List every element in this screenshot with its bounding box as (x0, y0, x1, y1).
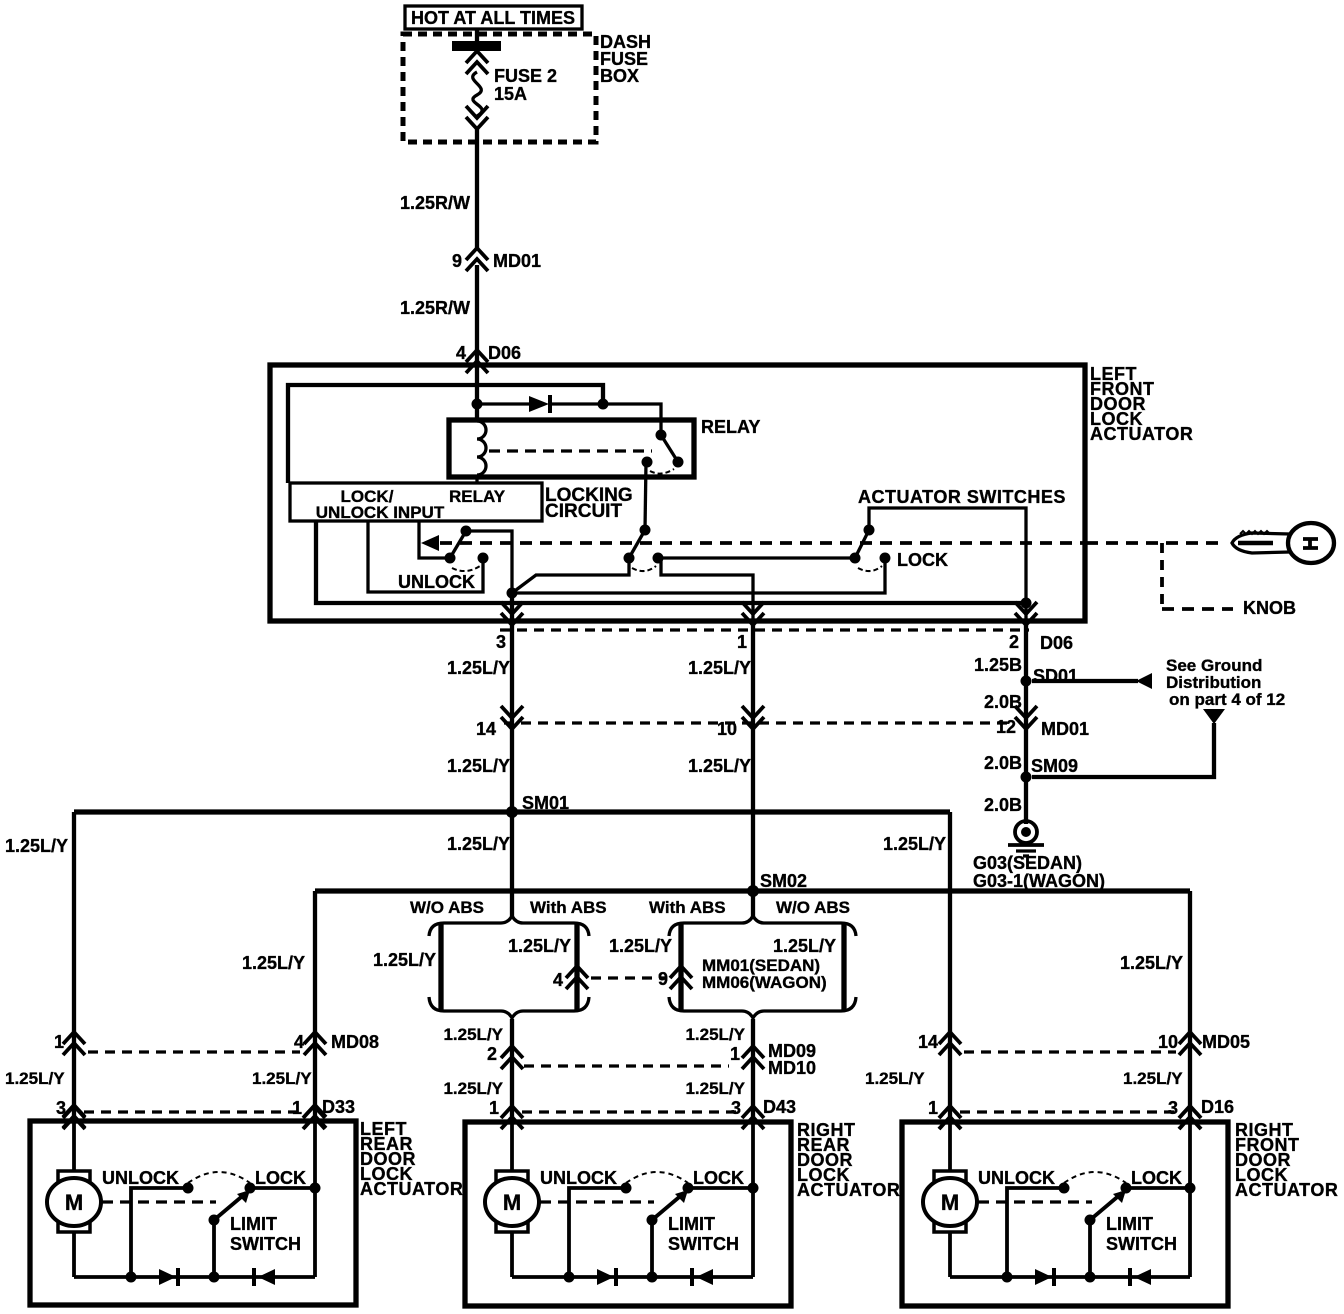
wire: loop from lock/unlock input box up and over to relay switch (288, 385, 603, 483)
wire: D06-3 to SM01, 1.25L/Y (510, 625, 514, 812)
wire: input box pin to unlock contact (368, 521, 483, 592)
wire: pin B vertical (313, 1121, 317, 1277)
svg-text:G03-1(WAGON): G03-1(WAGON) (973, 871, 1105, 891)
wire: bottom rail (74, 1275, 315, 1279)
svg-text:1.25L/Y: 1.25L/Y (685, 1079, 745, 1098)
component box: RIGHT FRONT DOOR LOCK ACTUATOR (902, 1122, 1228, 1306)
key H mark (1303, 539, 1318, 548)
node: HOT AT ALL TIMES power label box (405, 6, 582, 29)
svg-text:4: 4 (456, 343, 466, 363)
svg-text:D16: D16 (1201, 1097, 1234, 1117)
limit switch travel arc (dashed) (1064, 1172, 1126, 1183)
wire: left group to D43 pin 1, 1.25L/Y (510, 1019, 514, 1122)
limit switch pivot (RIGHT FRONT DOOR LOCK ACTUATOR) (1085, 1215, 1096, 1226)
svg-text:RELAY: RELAY (449, 487, 506, 506)
node: splice SM09 (1021, 772, 1032, 783)
diode D-b (LEFT REAR DOOR LOCK ACTUATOR) (252, 1268, 256, 1286)
wire: lock contact to pin 3 junction (512, 558, 885, 593)
svg-text:1.25L/Y: 1.25L/Y (883, 834, 946, 854)
wire: hot bus stub into fuse box (475, 29, 479, 42)
mechanical linkage arrow (421, 535, 439, 551)
switch: UNLOCK (actuator) pivot (445, 553, 456, 564)
svg-text:2.0B: 2.0B (984, 753, 1022, 773)
svg-text:1.25L/Y: 1.25L/Y (609, 936, 672, 956)
node: splice SM01 (506, 806, 518, 818)
middle switch contact (653, 553, 664, 564)
svg-text:1: 1 (54, 1032, 64, 1052)
diode D-b (RIGHT FRONT DOOR LOCK ACTUATOR) (1128, 1268, 1132, 1286)
svg-text:UNLOCK: UNLOCK (398, 572, 475, 592)
connector chevrons: fuse bottom (466, 106, 488, 129)
motor mechanical link (dashed) (978, 1200, 1092, 1203)
wire: motor to bottom rail (72, 1232, 76, 1277)
component box: LOCK/UNLOCK INPUT (290, 483, 542, 521)
relay RELAY box (449, 420, 694, 477)
limit switch travel arc (dashed) (626, 1172, 688, 1183)
motor mechanical link (dashed) (102, 1200, 216, 1203)
svg-text:12: 12 (996, 717, 1016, 737)
svg-text:14: 14 (476, 719, 496, 739)
switch: middle actuator switch pivot (624, 553, 635, 564)
diode D-b (RIGHT REAR DOOR LOCK ACTUATOR) (690, 1268, 694, 1286)
svg-text:10: 10 (1158, 1032, 1178, 1052)
svg-text:D06: D06 (1040, 633, 1073, 653)
limit switch pivot (RIGHT REAR DOOR LOCK ACTUATOR) (647, 1215, 658, 1226)
motor mechanical link (dashed) (540, 1200, 654, 1203)
relay mechanical link (dashed) (489, 449, 652, 452)
svg-text:ACTUATOR: ACTUATOR (1090, 424, 1193, 444)
svg-text:1.25B: 1.25B (974, 655, 1022, 675)
svg-text:M: M (941, 1190, 959, 1215)
svg-text:ACTUATOR SWITCHES: ACTUATOR SWITCHES (858, 487, 1066, 507)
limit switch arm (214, 1193, 246, 1220)
svg-text:W/O ABS: W/O ABS (410, 898, 484, 917)
wire: middle switch arm to relay contact (645, 462, 646, 530)
svg-text:1: 1 (730, 1044, 740, 1064)
svg-text:3: 3 (496, 632, 506, 652)
wire: relay coil bottom to lock/unlock input box (475, 475, 478, 484)
relay switch contact (642, 457, 653, 468)
component box: RIGHT REAR DOOR LOCK ACTUATOR (465, 1122, 791, 1306)
node: rail junction 2 (1085, 1272, 1096, 1283)
wire: SD01 to ground distribution (arrow) (1032, 679, 1138, 683)
wire: diode junction to relay switch common (603, 404, 661, 435)
connector MD01 pin 9 (466, 248, 488, 271)
wire: contact stub down to pin 1 (661, 558, 753, 621)
svg-text:1.25L/Y: 1.25L/Y (688, 756, 751, 776)
wire: SM09 to ground distribution (1032, 723, 1214, 777)
middle switch arm (629, 530, 645, 558)
svg-text:LOCK: LOCK (255, 1168, 306, 1188)
motor M (RIGHT FRONT DOOR LOCK ACTUATOR) (934, 1171, 966, 1183)
svg-text:W/O ABS: W/O ABS (776, 898, 850, 917)
diode D-a (RIGHT FRONT DOOR LOCK ACTUATOR) (1035, 1269, 1052, 1285)
wire: unlock contact to rail (131, 1188, 188, 1277)
node: splice SM02 (747, 885, 759, 897)
node: rail junction 1 (564, 1272, 575, 1283)
svg-text:SM09: SM09 (1031, 756, 1078, 776)
limit switch pivot (LEFT REAR DOOR LOCK ACTUATOR) (209, 1215, 220, 1226)
mechanical linkage dashed line to key (440, 541, 1083, 545)
svg-text:ACTUATOR: ACTUATOR (797, 1180, 900, 1200)
switch contact: UNLOCK (LEFT REAR DOOR LOCK ACTUATOR) (183, 1183, 194, 1194)
svg-text:1.25L/Y: 1.25L/Y (252, 1069, 312, 1088)
wire: pin 4 into relay coil (475, 365, 479, 421)
svg-text:1.25L/Y: 1.25L/Y (443, 1079, 503, 1098)
svg-text:2.0B: 2.0B (984, 692, 1022, 712)
svg-text:MD08: MD08 (331, 1032, 379, 1052)
svg-text:2: 2 (1009, 632, 1019, 652)
svg-text:1.25L/Y: 1.25L/Y (447, 834, 510, 854)
motor M (RIGHT REAR DOOR LOCK ACTUATOR) (496, 1171, 528, 1183)
diode D-a (LEFT REAR DOOR LOCK ACTUATOR) (159, 1269, 176, 1285)
svg-text:1.25L/Y: 1.25L/Y (865, 1069, 925, 1088)
wire: unlock contact to rail (569, 1188, 626, 1277)
svg-text:1.25L/Y: 1.25L/Y (685, 1025, 745, 1044)
wire: limit switch to rail (650, 1220, 654, 1277)
node: fuse bus bar (452, 41, 501, 51)
svg-text:LIMIT: LIMIT (668, 1214, 715, 1234)
svg-text:D43: D43 (763, 1097, 796, 1117)
wire: SM02 right branch down, 1.25L/Y (1188, 891, 1192, 1122)
svg-text:UNLOCK INPUT: UNLOCK INPUT (316, 503, 445, 522)
node: junction at coil top / diode anode (472, 399, 483, 410)
connector MD01 pin 12 (1015, 706, 1037, 729)
svg-text:RELAY: RELAY (701, 417, 760, 437)
svg-text:2: 2 (487, 1044, 497, 1064)
svg-text:M: M (503, 1190, 521, 1215)
connector D16 pins 1,3 (939, 1106, 961, 1129)
svg-text:LOCK: LOCK (693, 1168, 744, 1188)
component box: DASH FUSE BOX (dashed) (403, 34, 596, 142)
svg-text:BOX: BOX (600, 66, 639, 86)
connector MD05 pins 14,10 (939, 1032, 961, 1055)
svg-text:4: 4 (553, 970, 563, 990)
wire: limit switch to rail (212, 1220, 216, 1277)
diode D-a (RIGHT REAR DOOR LOCK ACTUATOR) (597, 1269, 614, 1285)
ground G03 (1015, 821, 1037, 843)
connector MD09 MD10 dashed line (524, 1064, 729, 1067)
node: splice SD01 (1021, 676, 1032, 687)
wire: pin B vertical (751, 1122, 755, 1277)
node: rail junction 2 (647, 1272, 658, 1283)
node: rail junction 1 (126, 1272, 137, 1283)
switch: LOCK (actuator) pivot (850, 553, 861, 564)
key symbol (1288, 523, 1334, 563)
svg-text:UNLOCK: UNLOCK (540, 1168, 617, 1188)
unlock switch arm (450, 531, 466, 558)
svg-text:1.25L/Y: 1.25L/Y (1123, 1069, 1183, 1088)
connector pin 9 (MM01/MM06) (670, 966, 692, 989)
svg-text:1.25L/Y: 1.25L/Y (773, 936, 836, 956)
wire: junction to middle switch pivot (512, 558, 629, 593)
svg-text:MD01: MD01 (493, 251, 541, 271)
svg-text:1.25L/Y: 1.25L/Y (373, 950, 436, 970)
switch contact: LOCK (RIGHT REAR DOOR LOCK ACTUATOR) (683, 1183, 694, 1194)
connector D06 pin 4 (466, 350, 488, 373)
connector MD01 pin 14 (501, 706, 523, 729)
switch contact: LOCK (LEFT REAR DOOR LOCK ACTUATOR) (245, 1183, 256, 1194)
wire: unlock contact to rail (1007, 1188, 1064, 1277)
wire: D06-2 ground wire 1.25B (1024, 625, 1028, 824)
wire: input box pin to D06 pin 2 line (316, 521, 1026, 603)
lock switch arm (855, 530, 869, 558)
svg-text:1.25L/Y: 1.25L/Y (5, 836, 68, 856)
switch contact: UNLOCK (RIGHT FRONT DOOR LOCK ACTUATOR) (1059, 1183, 1070, 1194)
svg-text:1.25L/Y: 1.25L/Y (447, 658, 510, 678)
connector D06 pins 3,1,2 (501, 602, 523, 625)
wire: pin to motor (510, 1122, 514, 1173)
wire: lock arm up over to pin 2 (869, 508, 1026, 621)
connector chevrons: fuse top (466, 51, 488, 74)
relay coil (477, 421, 486, 475)
svg-text:MD01: MD01 (1041, 719, 1089, 739)
svg-text:1.25L/Y: 1.25L/Y (688, 658, 751, 678)
wire: pin to motor (72, 1121, 76, 1173)
svg-text:1: 1 (292, 1098, 302, 1118)
svg-text:1.25L/Y: 1.25L/Y (443, 1025, 503, 1044)
svg-text:With ABS: With ABS (649, 898, 726, 917)
svg-text:9: 9 (452, 251, 462, 271)
svg-text:1.25L/Y: 1.25L/Y (5, 1069, 65, 1088)
wire: limit switch to rail (1088, 1220, 1092, 1277)
connector MM01(SEDAN) MM06(WAGON) dashed link (591, 976, 667, 979)
wire: unlock arm to pin 3 junction (466, 531, 512, 593)
svg-text:LOCK: LOCK (1131, 1168, 1182, 1188)
svg-text:MD05: MD05 (1202, 1032, 1250, 1052)
node: rail junction 1 (1002, 1272, 1013, 1283)
connector pins into LEFT REAR DOOR LOCK ACTUATOR (63, 1105, 85, 1128)
wire: fuse to connector MD01, 1.25R/W (475, 129, 479, 250)
branch split: With ABS / W/O ABS (right group) (669, 916, 856, 936)
svg-text:1.25L/Y: 1.25L/Y (508, 936, 571, 956)
svg-text:With ABS: With ABS (530, 898, 607, 917)
limit switch arm (1090, 1193, 1122, 1220)
svg-text:SM02: SM02 (760, 871, 807, 891)
wire: lock contact to pin (250, 1186, 315, 1190)
svg-text:KNOB: KNOB (1243, 598, 1296, 618)
unlock switch contact (478, 553, 489, 564)
node: rail junction 2 (209, 1272, 220, 1283)
svg-text:1.25L/Y: 1.25L/Y (242, 953, 305, 973)
connector MD01 pin 10 (742, 706, 764, 729)
wire: D06-1 to SM02, 1.25L/Y (751, 625, 755, 889)
connector MD09/MD10 pin 2 (501, 1046, 523, 1069)
wire: right group to D43 pin 3, 1.25L/Y (751, 1019, 755, 1122)
node: pin 3 junction (507, 588, 518, 599)
svg-text:SWITCH: SWITCH (1106, 1234, 1177, 1254)
svg-text:SWITCH: SWITCH (230, 1234, 301, 1254)
component box: LEFT FRONT DOOR LOCK ACTUATOR (270, 365, 1085, 621)
connector pins into RIGHT FRONT DOOR LOCK ACTUATOR (939, 1106, 961, 1129)
mechanical dashed line outside box to key (1086, 541, 1226, 545)
wire: SM02 bus (315, 888, 1190, 893)
wire: SM02 left branch down, 1.25L/Y (313, 891, 317, 1121)
wire: motor to bottom rail (510, 1232, 514, 1277)
svg-text:UNLOCK: UNLOCK (102, 1168, 179, 1188)
wire: pin to motor (948, 1122, 952, 1173)
limit switch travel arc (dashed) (188, 1172, 250, 1183)
svg-text:1: 1 (489, 1098, 499, 1118)
svg-text:M: M (65, 1190, 83, 1215)
svg-text:1: 1 (737, 632, 747, 652)
svg-text:1: 1 (928, 1098, 938, 1118)
svg-text:D06: D06 (488, 343, 521, 363)
svg-text:4: 4 (294, 1032, 304, 1052)
svg-text:MD10: MD10 (768, 1058, 816, 1078)
node: junction at pin 2 wire (1021, 598, 1032, 609)
svg-text:ACTUATOR: ACTUATOR (360, 1179, 463, 1199)
connector MD08 pins 1,4 (63, 1032, 85, 1055)
svg-text:1.25R/W: 1.25R/W (400, 193, 470, 213)
svg-text:1.25L/Y: 1.25L/Y (447, 756, 510, 776)
wire: SM01 bus (74, 809, 950, 814)
svg-text:UNLOCK: UNLOCK (978, 1168, 1055, 1188)
svg-text:FUSE 2: FUSE 2 (494, 66, 557, 86)
wire: MD01 to D06 pin 4, 1.25R/W (475, 265, 479, 365)
component box: LEFT REAR DOOR LOCK ACTUATOR (30, 1121, 356, 1305)
branch split: W/O ABS / With ABS (left group) (429, 916, 589, 936)
lock switch contact (880, 553, 891, 564)
wire: SM02 center down (751, 891, 755, 917)
wire: middle contact to lock switch pivot (658, 556, 855, 559)
svg-text:1.25R/W: 1.25R/W (400, 298, 470, 318)
svg-text:on part 4 of 12: on part 4 of 12 (1169, 690, 1285, 709)
svg-text:14: 14 (918, 1032, 938, 1052)
relay switch: common (656, 430, 667, 441)
wire: pin3 junction down through box edge (510, 593, 514, 621)
wire: input box pin to unlock switch pivot (419, 521, 449, 558)
wire: lock contact to pin (688, 1186, 753, 1190)
svg-text:1.25L/Y: 1.25L/Y (1120, 953, 1183, 973)
svg-text:D33: D33 (322, 1097, 355, 1117)
connector MD09/MD10 pin 1 (742, 1046, 764, 1069)
connector pin 4 (to MM01/MM06) (566, 966, 588, 989)
switch contact: UNLOCK (RIGHT REAR DOOR LOCK ACTUATOR) (621, 1183, 632, 1194)
svg-text:LOCK: LOCK (897, 550, 948, 570)
wire: bottom rail (512, 1275, 753, 1279)
wire: bottom rail (950, 1275, 1190, 1279)
relay switch arm (661, 435, 678, 462)
svg-text:CIRCUIT: CIRCUIT (545, 501, 622, 522)
svg-text:MM06(WAGON): MM06(WAGON) (702, 973, 827, 992)
fuse F2: FUSE 2 15A squiggle element (473, 72, 482, 116)
svg-text:SWITCH: SWITCH (668, 1234, 739, 1254)
svg-text:3: 3 (1168, 1098, 1178, 1118)
svg-text:ACTUATOR: ACTUATOR (1235, 1180, 1338, 1200)
wire: SM01 right branch down, 1.25L/Y (948, 812, 952, 1122)
wire: SM01 left branch down, 1.25L/Y (72, 812, 76, 1121)
diode D1 across relay coil (477, 402, 529, 405)
connector pins into RIGHT REAR DOOR LOCK ACTUATOR (501, 1106, 523, 1129)
connector D33 pins 3,1 (63, 1106, 85, 1129)
svg-text:LIMIT: LIMIT (1106, 1214, 1153, 1234)
node: diode cathode junction (598, 399, 609, 410)
svg-text:HOT AT ALL TIMES: HOT AT ALL TIMES (411, 8, 575, 28)
connector MD01 dashed line (504, 721, 1008, 724)
limit switch arm (652, 1193, 684, 1220)
svg-text:3: 3 (731, 1098, 741, 1118)
switch contact: LOCK (RIGHT FRONT DOOR LOCK ACTUATOR) (1121, 1183, 1132, 1194)
wire: pin B vertical (1188, 1122, 1192, 1277)
svg-text:15A: 15A (494, 84, 527, 104)
wire: motor to bottom rail (948, 1232, 952, 1277)
svg-text:G03(SEDAN): G03(SEDAN) (973, 853, 1082, 873)
svg-text:LIMIT: LIMIT (230, 1214, 277, 1234)
svg-text:2.0B: 2.0B (984, 795, 1022, 815)
wire: lock contact to pin (1126, 1186, 1190, 1190)
motor M (LEFT REAR DOOR LOCK ACTUATOR) (58, 1171, 90, 1183)
